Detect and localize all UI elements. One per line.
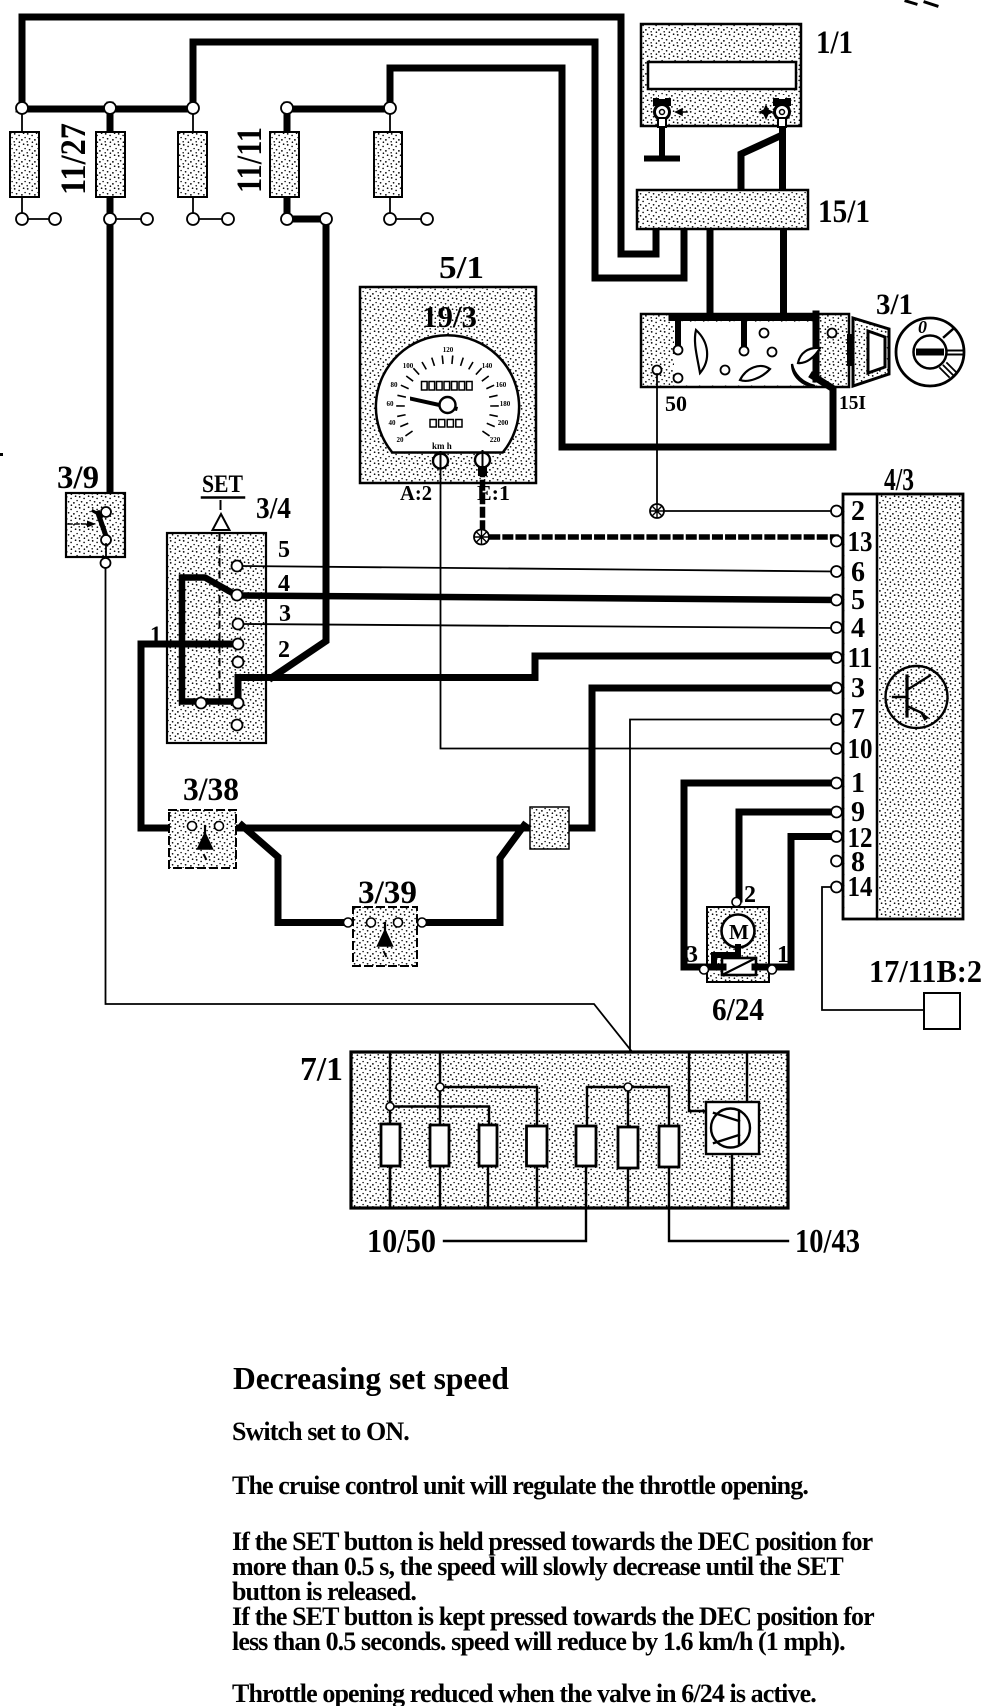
valve 6/24 box [707, 907, 769, 982]
key cylinder face [896, 318, 964, 386]
node fuse4 connector [320, 213, 332, 225]
svg-text:17/11B:2: 17/11B:2 [869, 953, 982, 989]
divider left [389, 1052, 391, 1208]
svg-text:3/39: 3/39 [358, 875, 417, 911]
7/1 fuse f5 [576, 1126, 596, 1166]
connector 3/39 dashed box [353, 907, 417, 966]
svg-text:5: 5 [851, 585, 865, 616]
battery cells window [648, 62, 796, 89]
3/4 pin common left [196, 698, 207, 709]
7/1 fuse f2 [430, 1125, 449, 1166]
svg-text:Decreasing set speed: Decreasing set speed [233, 1361, 509, 1396]
wire 4/3 pin9 to valve pin2 [739, 812, 836, 899]
7/1 fuse f6 [618, 1127, 638, 1168]
ignition contact arc 2 [740, 366, 770, 381]
svg-text:km h: km h [432, 441, 452, 451]
odometer lower [430, 420, 462, 428]
3/38 triangle symbol [198, 833, 213, 849]
svg-text:15I: 15I [839, 392, 866, 414]
3/4 internal dashed line [219, 534, 221, 700]
wire 3/9 to 7/1 [106, 568, 634, 1053]
svg-text:5/1: 5/1 [439, 249, 484, 285]
battery minus terminal clamp [653, 95, 671, 127]
svg-text:3/9: 3/9 [57, 460, 99, 496]
wire battery plus straight [779, 128, 786, 191]
3/4 pin 5 [232, 561, 243, 572]
speedometer needle [410, 397, 458, 412]
svg-text:200: 200 [498, 419, 509, 427]
ignition pin d [768, 348, 777, 357]
svg-text:6/24: 6/24 [712, 991, 764, 1027]
wire node 50 to 4/3 pin2 [664, 510, 836, 512]
svg-text:19/3: 19/3 [422, 299, 477, 334]
wire f2 drop [439, 1052, 441, 1125]
7/1 internal wires [390, 1052, 747, 1208]
svg-text:3/4: 3/4 [256, 490, 291, 525]
wire 3/4 pin4 to 4/3 pin5 [242, 596, 836, 601]
7/1 junction nodes [386, 1083, 632, 1111]
valve pin 1 [768, 965, 777, 974]
wire fuse 11/11 to node at 3/4 pin feed [272, 105, 326, 678]
svg-text:2: 2 [744, 882, 756, 908]
wire 10/43 [669, 1167, 788, 1241]
wire 4/3 pin7 to 7/1 [630, 720, 836, 1088]
junction symbol on 50 wire [650, 504, 664, 518]
svg-text:10/50: 10/50 [367, 1223, 436, 1260]
node fuse3 connector [222, 213, 234, 225]
SET dashes and triangle [220, 501, 222, 509]
wire 4/3 pin3 down-left run [569, 688, 836, 828]
3/4 pin 2 [233, 639, 244, 650]
7/1 fuse f4 [527, 1126, 548, 1166]
ground bar [647, 156, 677, 162]
connector funnel branch [242, 826, 524, 923]
svg-text:4: 4 [851, 613, 865, 644]
svg-text:0: 0 [918, 317, 927, 337]
svg-text:7/1: 7/1 [300, 1051, 343, 1088]
svg-text:80: 80 [391, 381, 399, 389]
3/4 pin 4 [232, 590, 243, 601]
speedometer scale numbers [387, 346, 511, 444]
svg-text:2: 2 [851, 496, 865, 527]
7/1 fuse f3 [479, 1125, 497, 1166]
key holder bar [847, 334, 853, 366]
svg-text:20: 20 [397, 436, 405, 444]
wire 10/50 [444, 1166, 586, 1241]
4/3 pin numbers [848, 496, 873, 903]
valve pin 2 [732, 898, 741, 907]
needle hub [440, 397, 456, 413]
svg-text:Throttle opening reduced when: Throttle opening reduced when the valve … [232, 1679, 816, 1706]
wire fuse bus left [19, 106, 193, 113]
wire 4/3 pin14 to 17/11B:2 [822, 887, 924, 1010]
divider right [746, 1052, 748, 1102]
svg-text:3/1: 3/1 [876, 288, 913, 321]
node fuse3 top [187, 102, 199, 114]
3/4 pin aux [233, 657, 244, 668]
ignition pin b [721, 366, 730, 375]
connector 17/11B:2 box [924, 993, 960, 1029]
valve pin 3 [700, 965, 709, 974]
fuse2 connector stub [110, 218, 147, 220]
branch feed to f7 [628, 1087, 669, 1126]
ignition pin e [828, 329, 837, 338]
svg-text:11/27: 11/27 [53, 123, 93, 195]
wire 3/4 pin5 to 4/3 pin6 [243, 566, 836, 572]
fuse body F3 [178, 132, 207, 197]
speedometer terminal E1 [475, 451, 490, 476]
wire fuse 11/27 to switch 3/9 [107, 105, 114, 513]
node fuse5 connector [421, 213, 433, 225]
svg-text:3: 3 [686, 942, 698, 968]
ignition pin c [760, 329, 769, 338]
svg-text:160: 160 [496, 381, 507, 389]
key position III [940, 363, 956, 377]
3/38 pin a [188, 822, 197, 831]
speedometer terminal A2 [433, 452, 448, 470]
wire lamp feed [689, 1052, 706, 1111]
WIRES-TOP [19, 17, 833, 678]
fuse3 element thin [192, 109, 194, 219]
wire battery feed B [193, 42, 684, 278]
ignition contact arc 3 [792, 364, 815, 386]
valve motor M [722, 915, 755, 948]
svg-text:40: 40 [389, 419, 397, 427]
battery plus sign [758, 104, 774, 120]
wire 3/4 pin3 to 4/3 pin4 [244, 624, 836, 628]
wire feed to f6 [627, 1087, 629, 1127]
node below 3/9 [101, 558, 111, 568]
3/9 blade [98, 513, 107, 539]
svg-text:50: 50 [665, 391, 687, 416]
odometer upper [422, 382, 473, 391]
svg-text:SET: SET [202, 471, 243, 498]
svg-text:3: 3 [851, 673, 865, 704]
3/9 top contact [101, 507, 111, 517]
ignition pin a [674, 374, 683, 383]
svg-text:Switch set to ON.: Switch set to ON. [232, 1417, 409, 1446]
svg-text:220: 220 [490, 436, 501, 444]
speedometer ticks [397, 356, 498, 435]
wire battery plus diagonal branch [741, 136, 780, 191]
7/1 lamp box [706, 1102, 759, 1154]
3/4 pin bottom [232, 720, 243, 731]
node fuse1 connector [49, 213, 61, 225]
branch feed to f5 [587, 1087, 628, 1126]
control unit 4/3 box [843, 494, 963, 919]
3/9 bottom contact [101, 535, 111, 545]
node fuse1 bottom [16, 213, 28, 225]
page mark artifact [906, 1, 937, 6]
junction symbol on dashed wire [474, 530, 489, 545]
svg-text:3/38: 3/38 [183, 772, 239, 808]
dashed wire E1 down [480, 469, 486, 529]
junction box on wire 1 [530, 807, 569, 849]
wire 4/3 pin1 to valve pin3 [684, 783, 836, 967]
svg-text:4: 4 [278, 571, 290, 597]
ignition contact arc 1 [695, 330, 707, 373]
caption paragraph [232, 1527, 874, 1656]
fuse3 connector stub [193, 218, 228, 220]
wire 3/9 lower stub [105, 544, 107, 558]
svg-text:15/1: 15/1 [818, 194, 870, 230]
wire 3/4 feed to 4/3 pin11 [238, 656, 836, 706]
svg-text:120: 120 [443, 346, 454, 354]
svg-text:5: 5 [278, 537, 290, 563]
7/1 fuse f1 [381, 1124, 400, 1166]
svg-text:13: 13 [848, 527, 873, 558]
page left margin dot [0, 453, 3, 456]
lamp bottom wire [731, 1154, 733, 1208]
cruise switch 3/4 box [167, 533, 266, 743]
7/1 lamp symbol [711, 1109, 750, 1148]
node fuse2 bottom [104, 213, 116, 225]
ignition pin t30a [674, 346, 683, 355]
wire 4/3 pin12 to valve pin1 [770, 837, 836, 968]
node fuse1 top [16, 102, 28, 114]
svg-text:less than 0.5 seconds. speed w: less than 0.5 seconds. speed will reduce… [232, 1627, 845, 1656]
switch 3/9 box [66, 493, 125, 557]
fuse5 element thin [389, 109, 391, 219]
dashed wire to 4/3 pin13 [492, 534, 836, 540]
fusebox 15/1 [637, 190, 808, 229]
svg-text:10: 10 [848, 734, 873, 765]
7/1 fuse f7 [659, 1126, 679, 1167]
node fuse2 connector [141, 213, 153, 225]
wire C to ignition 15I [390, 68, 833, 447]
fuse bottom wires [390, 1166, 628, 1208]
valve motor link [714, 947, 738, 966]
3/4 internal switch path [182, 578, 238, 702]
wire ignition 50 down [656, 374, 658, 504]
svg-text:1: 1 [851, 768, 865, 799]
wire 15/1 to ignition t30 right [780, 227, 787, 316]
svg-text:6: 6 [851, 557, 865, 588]
svg-text:140: 140 [482, 362, 493, 370]
battery minus arrow [676, 109, 687, 115]
3/4 pin labels [278, 537, 291, 663]
fuse 11/11 body F4 [270, 132, 299, 197]
fuse panel 7/1 box [351, 1052, 788, 1208]
wire battery minus to ground [659, 122, 665, 157]
4/3 pin circles [831, 506, 842, 893]
wire speedo A2 to 4/3 pin10 [441, 468, 837, 749]
fuse 11/27 body F1 [10, 132, 39, 197]
node fuse3 bottom [187, 213, 199, 225]
svg-text:14: 14 [848, 872, 873, 903]
branch f1 to f3 [390, 1107, 489, 1126]
node fuse5 top [384, 102, 396, 114]
ignition switch 3/1 box [641, 314, 849, 387]
svg-text:1: 1 [777, 942, 789, 968]
ignition internal bus [672, 314, 832, 388]
key holder trapezoid [853, 318, 889, 386]
fuse1 connector stub [22, 218, 55, 220]
valve bottom bus [706, 964, 772, 971]
wire 15/1 to ignition t30 left [707, 227, 714, 316]
node fuse5 bottom [384, 213, 396, 225]
svg-text:11/11: 11/11 [229, 127, 269, 193]
key position II [947, 351, 963, 355]
battery 1/1 box [641, 24, 801, 126]
3/38 pin b [215, 822, 224, 831]
svg-text:The cruise control unit will r: The cruise control unit will regulate th… [232, 1471, 808, 1500]
fuse body F5 [374, 132, 402, 197]
svg-text:180: 180 [500, 400, 511, 408]
speedometer dial dome [376, 335, 519, 452]
key slot [916, 349, 944, 356]
key position I [944, 329, 953, 337]
svg-text:60: 60 [387, 400, 395, 408]
wire battery feed A (fuse bus to 15/1) [22, 17, 656, 254]
node fuse4 bottom [281, 213, 293, 225]
svg-text:1/1: 1/1 [816, 25, 853, 61]
ignition pin t30b [740, 347, 749, 356]
svg-text:M: M [729, 920, 749, 944]
ignition pin 50 [653, 366, 662, 375]
valve solenoid element [722, 958, 756, 975]
wire fuse bus right [287, 106, 390, 113]
fuse body F2 [96, 132, 125, 197]
svg-text:10/43: 10/43 [795, 1223, 860, 1260]
transistor symbol U1 [886, 666, 948, 728]
svg-text:2: 2 [278, 637, 290, 663]
key window [868, 331, 885, 373]
svg-text:11: 11 [848, 643, 873, 674]
3/4 pin 3 [233, 619, 244, 630]
3/4 pin common right [233, 698, 244, 709]
svg-text:100: 100 [403, 362, 414, 370]
fuse1 element thin [21, 109, 23, 219]
branch f2 to f4 [440, 1087, 537, 1126]
fuse5 connector stub [390, 218, 427, 220]
3/39 triangle symbol [378, 930, 393, 946]
node fuse2 top [104, 102, 116, 114]
wire 1 into 3/4 and down to 7/1 feed [141, 644, 532, 828]
3/9 actuate arrow [68, 523, 88, 525]
svg-text:7: 7 [851, 704, 865, 735]
svg-text:1: 1 [150, 622, 162, 647]
speedometer 5/1 box [360, 287, 536, 483]
4/3 pin strip [845, 496, 876, 918]
connector 3/38 dashed box [169, 810, 236, 868]
node fuse4 top [281, 102, 293, 114]
3/39 pins [344, 918, 427, 927]
svg-text:A:2: A:2 [400, 481, 432, 505]
ignition contact arc 4 [798, 348, 820, 363]
battery plus terminal clamp [773, 95, 791, 127]
svg-text:3: 3 [279, 601, 291, 627]
svg-text:4/3: 4/3 [884, 461, 914, 497]
